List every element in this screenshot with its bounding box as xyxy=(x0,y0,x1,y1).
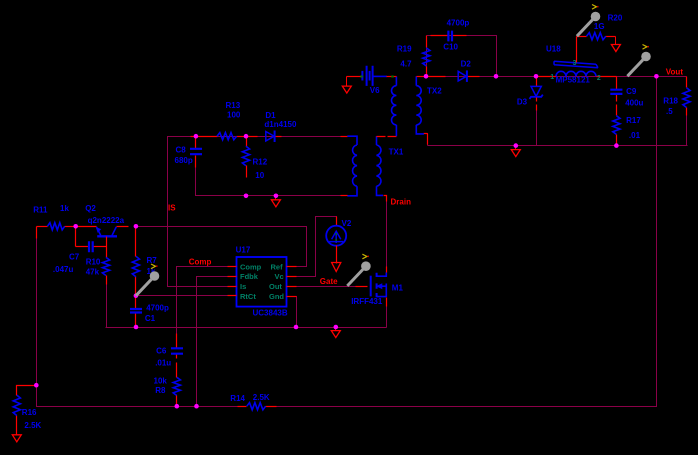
svg-text:1: 1 xyxy=(550,74,554,81)
svg-text:C6: C6 xyxy=(156,346,167,355)
svg-text:.01: .01 xyxy=(629,131,641,140)
svg-text:R17: R17 xyxy=(626,116,641,125)
svg-text:d1n4150: d1n4150 xyxy=(264,120,297,129)
ammeter V2 xyxy=(336,217,338,226)
svg-text:V6: V6 xyxy=(370,86,380,95)
svg-text:R13: R13 xyxy=(226,101,241,110)
wire R18 bottom xyxy=(686,113,688,146)
svg-text:.047u: .047u xyxy=(53,265,74,274)
wire snubber bottom rail xyxy=(196,157,348,196)
wire TX1 primary bottom to drain xyxy=(384,196,387,202)
svg-text:Comp: Comp xyxy=(240,262,262,271)
svg-text:1G: 1G xyxy=(594,22,605,31)
svg-text:Is: Is xyxy=(240,282,246,291)
probe marker Vout xyxy=(627,60,643,76)
inductor U18 xyxy=(537,76,557,78)
svg-text:R10: R10 xyxy=(86,258,101,267)
wire C10 branch xyxy=(427,36,497,77)
wire R10 bottom to ground rail xyxy=(106,285,108,328)
resistor R16 xyxy=(17,386,37,396)
svg-text:MP58121: MP58121 xyxy=(556,76,591,85)
wire bottom rail to Vout xyxy=(277,77,657,407)
svg-text:R18: R18 xyxy=(663,97,678,106)
svg-text:R7: R7 xyxy=(147,256,158,265)
pin Ref xyxy=(287,266,297,268)
svg-text:D2: D2 xyxy=(461,60,472,69)
svg-text:.5: .5 xyxy=(666,107,673,116)
pin Fdbk xyxy=(228,276,237,278)
wire Fdbk to divider xyxy=(197,277,228,407)
svg-text:1k: 1k xyxy=(60,204,69,213)
ground output rail xyxy=(515,146,517,150)
polarity mark V6 minus xyxy=(360,76,362,78)
resistor R14 xyxy=(238,406,247,408)
svg-text:2.5K: 2.5K xyxy=(24,421,41,430)
resistor R7 xyxy=(135,229,137,257)
svg-text:Comp: Comp xyxy=(189,257,212,266)
pin Vc xyxy=(287,276,297,278)
svg-text:C8: C8 xyxy=(176,146,187,155)
wire core pin3 to R20 xyxy=(576,37,578,63)
svg-text:Ref: Ref xyxy=(271,262,284,271)
transistor M1 IRFF431 xyxy=(356,286,368,288)
resistor R18 xyxy=(686,77,688,88)
svg-text:C1: C1 xyxy=(145,314,156,323)
resistor R19 xyxy=(426,36,428,48)
svg-text:RtCt: RtCt xyxy=(240,292,256,301)
transistor Q2 xyxy=(76,226,97,228)
wire output rail D2 to R18 xyxy=(427,76,687,78)
svg-text:Out: Out xyxy=(269,282,282,291)
wire ground rail xyxy=(106,327,387,329)
svg-text:47k: 47k xyxy=(86,267,100,276)
svg-text:D1: D1 xyxy=(265,111,276,120)
resistor R13 xyxy=(191,136,218,138)
capacitor C7 xyxy=(75,229,77,247)
resistor R20 xyxy=(577,36,587,38)
transformer TX1 xyxy=(341,136,348,138)
wire IS net (snubber rail to Is pin) xyxy=(168,137,348,287)
resistor R17 xyxy=(613,116,620,135)
capacitor C9 xyxy=(616,77,618,90)
transformer TX2 xyxy=(395,76,397,85)
svg-text:R19: R19 xyxy=(397,45,412,54)
resistor R8 xyxy=(173,377,180,395)
pin Gnd xyxy=(287,296,297,298)
svg-text:Gnd: Gnd xyxy=(269,292,284,301)
svg-text:2.5K: 2.5K xyxy=(253,393,270,402)
wire Gnd pin to ground rail xyxy=(288,297,297,328)
svg-text:TX1: TX1 xyxy=(389,148,404,157)
svg-text:U17: U17 xyxy=(236,246,251,255)
diode D1 xyxy=(247,136,258,138)
probe marker RtCt node xyxy=(136,279,152,295)
svg-text:680p: 680p xyxy=(175,156,193,165)
probe marker R20 node xyxy=(577,20,593,36)
svg-text:UC3843B: UC3843B xyxy=(253,308,288,317)
svg-text:TX2: TX2 xyxy=(427,87,442,96)
svg-text:IRFF431: IRFF431 xyxy=(351,297,383,306)
capacitor C1 xyxy=(135,296,137,309)
svg-text:2: 2 xyxy=(597,75,601,82)
svg-text:R12: R12 xyxy=(253,158,268,167)
svg-text:U18: U18 xyxy=(546,45,561,54)
svg-text:C10: C10 xyxy=(443,43,458,52)
svg-text:C7: C7 xyxy=(69,253,80,262)
pin RtCt xyxy=(228,295,237,297)
wire Comp to C6 xyxy=(177,267,228,349)
svg-text:R20: R20 xyxy=(608,14,623,23)
capacitor C8 xyxy=(195,137,197,149)
wire Drain net xyxy=(386,196,388,273)
svg-text:R8: R8 xyxy=(155,386,166,395)
svg-text:IS: IS xyxy=(168,203,176,212)
svg-text:M1: M1 xyxy=(392,284,404,293)
junction dots xyxy=(194,134,199,139)
svg-text:4700p: 4700p xyxy=(447,19,470,28)
resistor R11 xyxy=(37,226,48,228)
wire R19 branch xyxy=(426,36,428,77)
svg-text:C9: C9 xyxy=(626,87,637,96)
arrow V2 bottom terminal xyxy=(336,246,338,264)
pin Comp xyxy=(228,266,237,268)
capacitor C6 xyxy=(176,334,178,348)
wire Ref loop (Q2 collector to Ref pin) xyxy=(136,227,307,267)
svg-text:q2n2222a: q2n2222a xyxy=(88,216,125,225)
resistor R10 xyxy=(102,257,109,275)
op-amp U17 UC3843B xyxy=(237,257,287,307)
pin Out xyxy=(287,286,297,288)
svg-text:4700p: 4700p xyxy=(146,304,169,313)
wire TX2 secondary bottom xyxy=(424,134,428,146)
battery V6 xyxy=(347,76,362,78)
polarity mark TX2 dot xyxy=(391,76,393,78)
svg-text:400u: 400u xyxy=(625,98,643,107)
svg-text:Q2: Q2 xyxy=(85,204,96,213)
probe marker Gate xyxy=(347,270,363,286)
svg-text:Fdbk: Fdbk xyxy=(240,272,259,281)
wire M1 source to ground rail xyxy=(386,301,388,328)
capacitor C10 xyxy=(431,35,449,37)
wire D3 branch xyxy=(536,111,538,146)
svg-text:R14: R14 xyxy=(230,394,245,403)
svg-text:10k: 10k xyxy=(154,377,168,386)
svg-text:Vout: Vout xyxy=(666,68,684,77)
svg-text:Vc: Vc xyxy=(275,272,284,281)
svg-text:D3: D3 xyxy=(517,98,528,107)
wire Vc to V2 ammeter xyxy=(288,217,337,277)
svg-text:.01u: .01u xyxy=(155,359,171,368)
wire C9 branch stub xyxy=(616,77,618,81)
svg-text:10: 10 xyxy=(255,171,264,180)
resistor R12 xyxy=(246,137,248,147)
svg-text:Gate: Gate xyxy=(320,277,338,286)
zener diode D3 xyxy=(536,77,538,87)
ground R20 xyxy=(615,37,617,45)
ground IC rail xyxy=(335,328,337,331)
wire output bottom rail xyxy=(428,145,688,147)
wire TX1 primary top to TX2 xyxy=(377,136,397,138)
svg-text:100: 100 xyxy=(227,111,241,120)
svg-text:R11: R11 xyxy=(33,206,48,215)
svg-text:R16: R16 xyxy=(22,408,37,417)
svg-text:Drain: Drain xyxy=(391,198,412,207)
ground snubber xyxy=(275,196,277,200)
ground R16 xyxy=(12,435,21,442)
pin Is xyxy=(228,286,237,288)
svg-text:4.7: 4.7 xyxy=(400,60,412,69)
wire Out to gate xyxy=(288,286,368,288)
wire feedback left vertical xyxy=(37,227,238,407)
svg-text:V2: V2 xyxy=(342,219,352,228)
ground V6 xyxy=(346,77,348,87)
diode D2 xyxy=(427,76,446,78)
wire RtCt to timing node xyxy=(136,295,228,297)
